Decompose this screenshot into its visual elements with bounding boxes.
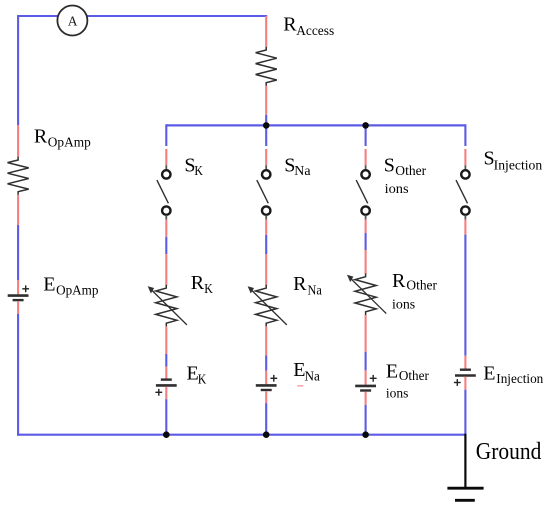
- wire: [17, 125, 19, 157]
- label S_Injection: [484, 147, 543, 172]
- wire: [265, 124, 267, 146]
- svg-text:Na: Na: [308, 282, 322, 297]
- switch S_Other_ions: [356, 165, 370, 219]
- svg-text:Injection: Injection: [494, 157, 543, 172]
- wire: [464, 235, 466, 356]
- wire: [18, 15, 58, 17]
- wire: [365, 315, 367, 352]
- ground: [447, 434, 483, 501]
- switch S_Injection: [456, 165, 470, 219]
- label E_K: [187, 363, 207, 387]
- wire: [165, 367, 167, 379]
- svg-text:Na: Na: [294, 163, 310, 178]
- label R_Access: [283, 13, 334, 38]
- svg-text:A: A: [68, 13, 78, 28]
- label S_Na: [284, 155, 310, 179]
- wire: [265, 403, 267, 435]
- svg-text:K: K: [204, 281, 213, 296]
- label R_Other_ions: [392, 270, 437, 311]
- wire: [265, 326, 267, 355]
- resistor R_OpAmp: [8, 157, 29, 195]
- wire: [17, 280, 19, 294]
- wire: [165, 387, 167, 400]
- wire: [365, 233, 367, 250]
- svg-text:E: E: [386, 361, 398, 383]
- wire: [87, 15, 267, 17]
- wire: [265, 149, 267, 165]
- label E_Na: [293, 359, 320, 384]
- wire: [165, 220, 167, 237]
- svg-text:K: K: [198, 372, 207, 387]
- wire: [165, 124, 167, 146]
- wire: [17, 301, 19, 314]
- wire: [17, 314, 19, 436]
- wire: [464, 220, 466, 235]
- svg-text:K: K: [194, 163, 203, 178]
- stray red mark: [297, 385, 303, 387]
- svg-text:E: E: [483, 363, 495, 385]
- svg-text:Other: Other: [399, 368, 429, 383]
- variable resistor R_Na: [248, 285, 287, 327]
- switch S_Na: [257, 165, 271, 219]
- wire: [165, 354, 167, 367]
- label E_Injection: [483, 363, 543, 386]
- label S_Other_ions: [384, 155, 427, 196]
- label R_OpAmp: [34, 125, 91, 149]
- wire: [265, 254, 267, 285]
- wire: [365, 370, 367, 384]
- wire: [365, 124, 367, 146]
- svg-text:Access: Access: [296, 23, 334, 38]
- wire: [165, 399, 167, 435]
- svg-text:Ground: Ground: [476, 438, 542, 465]
- wire: [17, 15, 19, 125]
- node (bottom/Other): [362, 431, 369, 438]
- wire: [265, 371, 267, 385]
- wire: [464, 356, 466, 369]
- wire: [365, 149, 367, 165]
- wire: [365, 250, 367, 274]
- wire: [464, 390, 466, 435]
- svg-text:R: R: [191, 272, 205, 294]
- svg-text:R: R: [34, 125, 48, 147]
- battery E_Na: [256, 375, 277, 390]
- svg-text:Na: Na: [305, 369, 320, 384]
- wire: [365, 352, 367, 370]
- svg-text:R: R: [283, 13, 297, 35]
- wire: [165, 254, 167, 285]
- wire: [17, 195, 19, 225]
- label R_Na: [293, 273, 322, 297]
- wire: [265, 356, 267, 371]
- svg-text:R: R: [293, 273, 307, 295]
- battery E_Injection: [454, 370, 476, 386]
- node (bottom/Na): [263, 431, 270, 438]
- wire: [165, 237, 167, 254]
- node (bottom/K): [163, 431, 170, 438]
- variable resistor R_Other_ions: [347, 274, 386, 316]
- wire: [265, 391, 267, 403]
- wire: [365, 392, 367, 405]
- variable resistor R_K: [148, 285, 187, 327]
- svg-text:R: R: [392, 270, 406, 292]
- battery E_K: [155, 380, 176, 396]
- label S_K: [184, 155, 203, 179]
- wire: [17, 434, 465, 436]
- battery E_OpAmp: [8, 285, 29, 300]
- svg-text:Injection: Injection: [496, 371, 543, 386]
- wire (middle bus): [166, 124, 465, 126]
- wire (R_Access bottom lead): [265, 86, 267, 115]
- label E_Other_ions: [386, 361, 429, 401]
- svg-text:ions: ions: [386, 386, 409, 401]
- svg-text:ions: ions: [392, 296, 415, 311]
- battery E_Other_ions: [355, 375, 376, 391]
- label E_OpAmp: [43, 273, 98, 297]
- wire: [464, 149, 466, 165]
- wire: [165, 326, 167, 354]
- wire: [464, 377, 466, 390]
- svg-text:Other: Other: [406, 277, 437, 292]
- wire: [365, 220, 367, 233]
- wire: [265, 220, 267, 235]
- wire: [265, 235, 267, 254]
- node (bus/Other): [362, 122, 369, 129]
- svg-text:OpAmp: OpAmp: [48, 135, 91, 150]
- wire: [17, 225, 19, 280]
- label R_K: [191, 272, 213, 296]
- wire: [165, 149, 167, 165]
- resistor R_Access: [256, 47, 277, 86]
- wire: [265, 115, 267, 126]
- svg-text:ions: ions: [385, 181, 409, 196]
- ammeter A1: [57, 6, 87, 36]
- node (bus/R_Access): [263, 122, 270, 129]
- svg-text:OpAmp: OpAmp: [56, 283, 99, 298]
- wire: [464, 124, 466, 146]
- wire (R_Access top lead): [265, 16, 267, 47]
- svg-text:Other: Other: [395, 163, 426, 178]
- svg-text:S: S: [384, 155, 395, 177]
- wire: [365, 405, 367, 435]
- svg-text:E: E: [43, 273, 55, 295]
- switch S_K: [157, 165, 171, 219]
